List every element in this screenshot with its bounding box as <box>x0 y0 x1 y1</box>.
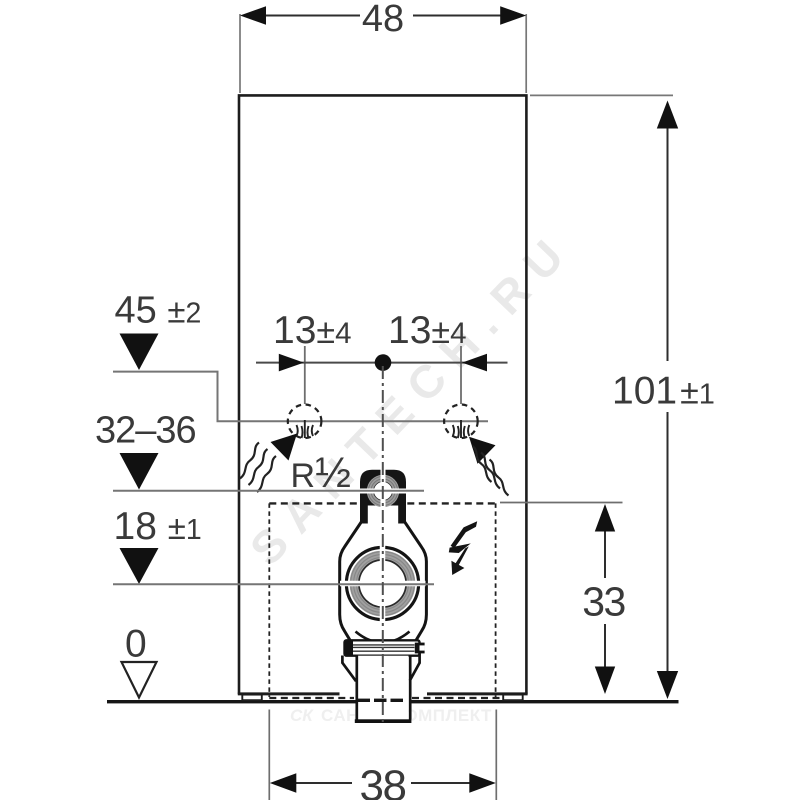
level line 18 through valve center <box>113 583 434 585</box>
svg-text:45 ±2: 45 ±2 <box>115 290 202 332</box>
svg-text:СК: СК <box>290 706 314 725</box>
dashed service box top edge <box>269 502 495 504</box>
svg-text:101±1: 101±1 <box>612 370 715 413</box>
svg-text:SANTECH.RU: SANTECH.RU <box>240 220 583 575</box>
watermark bottom СК САНТЕХКОМПЛЕКТ <box>290 706 492 725</box>
down pipe walls <box>357 656 410 720</box>
dimension 38 line and arrows <box>270 773 496 793</box>
level triangle 32-36 <box>120 453 159 490</box>
level line 45 with step <box>113 372 488 422</box>
dimension 48 extension lines <box>240 14 526 93</box>
dimension 33 line and arrows <box>595 504 615 694</box>
svg-text:18 ±1: 18 ±1 <box>114 505 202 548</box>
dashed circle water connection left <box>288 405 322 439</box>
down pipe white fill <box>358 656 409 722</box>
level triangle 18 <box>120 548 159 584</box>
dashed circle water connection right <box>444 405 478 439</box>
clamp left black cap <box>344 640 353 655</box>
svg-text:38: 38 <box>360 762 406 800</box>
level line 32-36 through fitting <box>113 490 424 492</box>
bottom sleeve arc <box>356 632 410 643</box>
panel outline rectangle <box>238 95 528 694</box>
dimension 13 line <box>256 362 508 364</box>
lightning bolt symbol <box>449 521 477 575</box>
svg-text:48: 48 <box>362 0 404 40</box>
extension line panel top right for 101 <box>530 94 673 96</box>
level triangle 45 <box>120 334 159 371</box>
spray symbol left <box>297 420 314 438</box>
panel foot left <box>242 695 261 701</box>
clamp right black bracket <box>415 643 425 654</box>
dimension 33 extension line <box>500 502 623 504</box>
dimension 101 line and arrows <box>657 101 678 700</box>
dashed service box bottom edge <box>269 697 354 699</box>
watermark diagonal SANTECH.RU main row <box>240 220 583 575</box>
svg-text:33: 33 <box>582 579 625 625</box>
clamp hatch lines <box>352 645 415 651</box>
valve main circle white center <box>360 561 406 607</box>
fitting centerline white channels <box>352 464 414 528</box>
valve centerline white channels <box>340 540 426 629</box>
clamp body <box>345 640 420 655</box>
svg-text:32–36: 32–36 <box>95 410 196 452</box>
water supply fitting R1/2 black body <box>360 470 406 524</box>
open level triangle 0 <box>122 662 157 698</box>
arrow 13 right <box>462 354 487 372</box>
support braces <box>342 654 419 682</box>
spray symbol right <box>453 420 470 438</box>
valve main circle outer ring <box>347 548 419 620</box>
dashed service box right edge <box>495 503 497 697</box>
vertical centerline dash-dot <box>382 366 384 726</box>
dimension 13 extension lines <box>305 346 461 404</box>
valve gray ring pack <box>349 550 417 618</box>
floor line <box>107 700 356 703</box>
panel foot right <box>503 695 523 701</box>
dashed service box left edge <box>268 503 270 697</box>
dimension 38 extension lines <box>269 710 496 800</box>
fitting ring <box>368 476 397 505</box>
svg-text:0: 0 <box>125 623 147 666</box>
center dot node <box>375 354 392 371</box>
squiggle flow arrow left <box>240 434 297 493</box>
floor dashes across pipe <box>358 699 404 702</box>
squiggle flow arrow right <box>469 437 509 496</box>
valve body outline <box>340 522 427 642</box>
arrow 13 left <box>279 354 304 372</box>
svg-text:13±4: 13±4 <box>273 309 351 352</box>
down pipe bottom cap <box>355 719 412 723</box>
dimension 48 line and arrows <box>240 6 526 25</box>
